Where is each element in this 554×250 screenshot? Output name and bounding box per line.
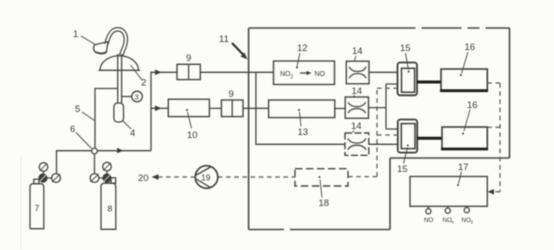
filter 9b — [221, 89, 243, 117]
humidifier 18 — [295, 169, 348, 186]
label 1 — [73, 29, 96, 45]
dashed exhaust line 20 — [138, 173, 195, 184]
pump 19 — [195, 166, 218, 189]
detector 15a — [398, 63, 418, 96]
label 14b — [352, 86, 363, 97]
label 15b — [397, 148, 408, 176]
svg-text:3: 3 — [135, 93, 139, 102]
wire 14b split to 15a 15b — [369, 84, 399, 129]
label 14a — [352, 46, 363, 61]
svg-text:9: 9 — [186, 53, 191, 64]
label 11 — [219, 34, 248, 60]
wire to filter 9a — [151, 70, 177, 76]
gooseneck tube — [107, 29, 126, 56]
sampling horn (item 1) — [94, 42, 108, 54]
svg-text:NO: NO — [424, 217, 434, 224]
svg-text:NO: NO — [280, 71, 291, 78]
regulator cylinder 7 — [38, 163, 60, 183]
faint page line — [20, 155, 22, 250]
svg-text:20: 20 — [138, 173, 149, 184]
label 13 — [298, 112, 309, 138]
svg-text:15: 15 — [400, 43, 411, 54]
enclosure line 5 — [95, 89, 118, 149]
svg-text:2: 2 — [291, 75, 294, 81]
label 5 — [75, 104, 95, 121]
dashed wire 16a 16b to recorder 17 — [487, 83, 500, 195]
outputs NO NOx NO2 — [424, 206, 474, 224]
svg-text:16: 16 — [467, 100, 478, 111]
riser wire — [150, 72, 152, 151]
svg-text:8: 8 — [108, 204, 113, 214]
analyzer 16b — [441, 127, 488, 149]
dome 2 — [99, 56, 141, 71]
recorder 17 — [410, 177, 487, 207]
thick wire 15b to 16b — [417, 137, 442, 140]
svg-text:16: 16 — [465, 42, 476, 53]
label 18 — [319, 180, 330, 210]
svg-text:10: 10 — [187, 130, 198, 141]
svg-text:5: 5 — [75, 104, 80, 115]
thick wire 15a to 16a — [417, 81, 441, 84]
svg-text:14: 14 — [351, 121, 362, 132]
svg-text:13: 13 — [298, 127, 309, 138]
dashed pump line to 18 and risers — [218, 88, 398, 177]
svg-text:NO: NO — [315, 71, 326, 78]
analyzer feed 13 — [269, 100, 335, 118]
label 16b — [464, 100, 478, 131]
bypass wire — [256, 72, 345, 144]
gas cylinder 7 — [30, 179, 44, 229]
svg-text:1: 1 — [73, 29, 78, 40]
restrictor 14b — [345, 97, 368, 118]
wire 10 to 9b — [209, 107, 221, 109]
wire 14c to 15b — [369, 143, 398, 145]
label 14c — [351, 121, 362, 133]
svg-text:7: 7 — [35, 203, 40, 213]
enclosure box 11 — [249, 28, 510, 230]
label 4 — [123, 121, 135, 139]
label 17 — [458, 162, 469, 184]
wire 9a to converter 12 — [200, 71, 273, 73]
svg-text:15: 15 — [397, 164, 408, 175]
svg-text:6: 6 — [70, 124, 75, 135]
detector 15b — [398, 120, 417, 153]
svg-text:12: 12 — [297, 43, 308, 54]
svg-text:19: 19 — [201, 173, 211, 183]
svg-text:4: 4 — [130, 128, 135, 139]
wire 9b to 13 — [243, 107, 269, 109]
wire 13 to 14b — [335, 108, 345, 110]
label 10 — [187, 112, 198, 141]
restrictor 14c — [345, 133, 369, 155]
probe tube — [118, 54, 122, 104]
junction node 6 — [92, 148, 98, 154]
regulator cylinder 8 — [90, 162, 112, 182]
label 2 — [131, 65, 147, 89]
wire junction down to cyl8 regulator — [94, 154, 96, 174]
label 16a — [462, 42, 476, 74]
wire 14a to 15a — [369, 71, 398, 73]
svg-text:14: 14 — [352, 86, 363, 97]
label 12 — [296, 43, 308, 69]
label 6 — [70, 124, 92, 149]
wire junction to cyl7 regulator — [57, 151, 92, 174]
box 10 — [168, 99, 209, 116]
wire to converter 10 — [151, 106, 168, 112]
svg-text:14: 14 — [352, 46, 363, 57]
label 15a — [400, 43, 411, 70]
gas cylinder 8 — [101, 178, 116, 230]
restrictor 14a — [346, 61, 369, 84]
analyzer 16a — [440, 69, 488, 91]
wire junction6 to riser — [97, 148, 151, 153]
svg-text:11: 11 — [219, 34, 229, 45]
converter 12 — [274, 61, 335, 85]
svg-text:18: 18 — [319, 198, 330, 209]
svg-text:17: 17 — [458, 162, 469, 173]
capsule 4 — [114, 103, 124, 122]
circle 3 — [122, 91, 143, 102]
svg-text:2: 2 — [471, 220, 474, 225]
svg-text:9: 9 — [229, 89, 234, 100]
filter 9a — [177, 53, 200, 80]
